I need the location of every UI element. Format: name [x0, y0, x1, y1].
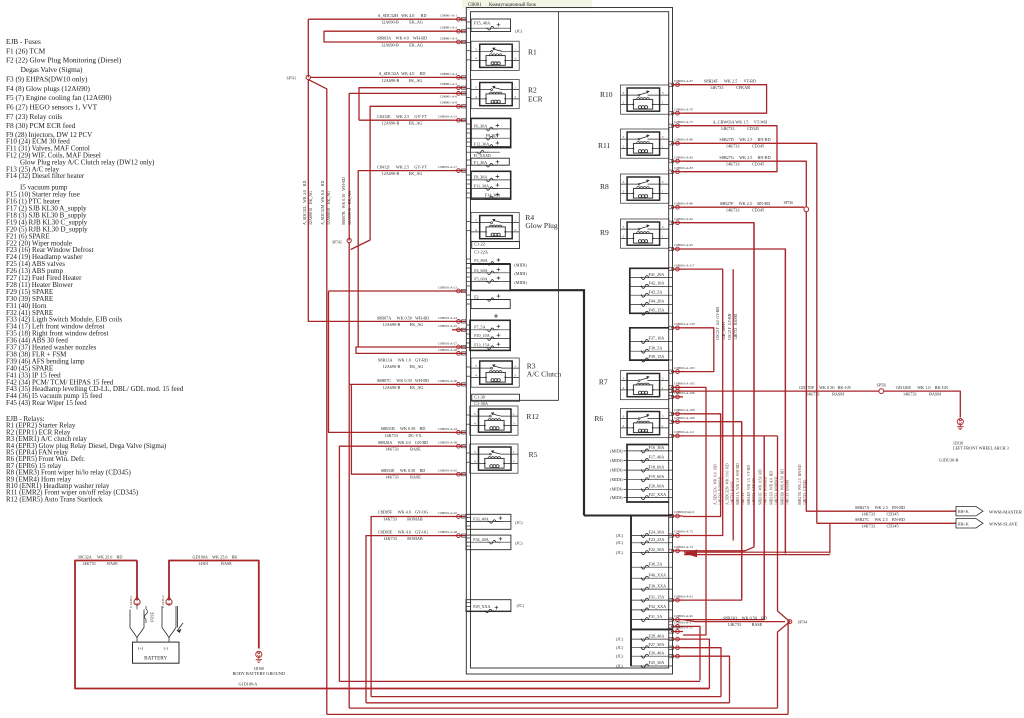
- svg-text:C0B001-A-109: C0B001-A-109: [674, 416, 695, 420]
- svg-text:F33_40A: F33_40A: [473, 516, 489, 521]
- svg-text:EJB - Fuses: EJB - Fuses: [6, 37, 41, 46]
- wire battery positive drop: [136, 561, 138, 599]
- svg-text:C0B001-A-83: C0B001-A-83: [674, 166, 693, 170]
- right edge connector pins of CB001: [669, 79, 695, 658]
- svg-text:(JC): (JC): [616, 637, 624, 642]
- svg-text:12A690-B EK_AG: 12A690-B EK_AG: [382, 171, 423, 176]
- svg-text:R7: R7: [599, 378, 608, 387]
- svg-text:C1A36-1: C1A36-1: [129, 595, 133, 608]
- svg-text:F15_40A: F15_40A: [474, 21, 491, 26]
- svg-text:14K733 BASE: 14K733 BASE: [385, 475, 421, 480]
- svg-text:F13_15A: F13_15A: [474, 342, 490, 347]
- ground body battery: [256, 651, 262, 662]
- wire label S8B07A: [377, 316, 429, 328]
- wire label S8B31B: [381, 426, 426, 438]
- svg-text:(JC): (JC): [616, 645, 624, 650]
- svg-text:12A690-B EK_AG: 12A690-B EK_AG: [383, 364, 424, 369]
- svg-text:C0B001-A-117: C0B001-A-117: [674, 263, 695, 267]
- relay R5: [470, 444, 518, 473]
- wire S8B31B: [329, 291, 453, 432]
- svg-text:(JC): (JC): [515, 541, 523, 546]
- svg-text:12A690-B EK_AG: 12A690-B EK_AG: [382, 121, 423, 126]
- wire S8B33E: [351, 384, 452, 474]
- svg-text:RH+K: RH+K: [958, 509, 969, 514]
- svg-text:A_SDC32N WK 10.0 RD: A_SDC32N WK 10.0 RD: [726, 463, 730, 505]
- splice SP741: [287, 75, 311, 80]
- svg-text:(JC): (JC): [616, 654, 624, 659]
- svg-text:F25_30A: F25_30A: [649, 660, 665, 665]
- junction box CB001 title: [462, 0, 592, 9]
- wire branch to pin A-92 lower: [683, 436, 764, 620]
- wire stub A-11 down: [683, 648, 721, 697]
- wire battery negative to ground: [169, 561, 259, 649]
- svg-text:C0B001-A-67: C0B001-A-67: [674, 79, 693, 83]
- svg-text:30C32A WK 25.0 RD: 30C32A WK 25.0 RD: [78, 554, 123, 559]
- svg-text:R5: R5: [529, 450, 538, 459]
- wire battery positive feed: [75, 561, 709, 689]
- svg-text:S8B27C WK 2.5 BN-RD: S8B27C WK 2.5 BN-RD: [855, 517, 905, 522]
- svg-text:C0B001-A-86: C0B001-A-86: [674, 201, 693, 205]
- svg-text:C8412I WK 2.5 GY-VT: C8412I WK 2.5 GY-VT: [377, 164, 427, 169]
- svg-text:F40_XXA: F40_XXA: [649, 572, 667, 577]
- svg-text:S8B24F WK 2.5 VT-RD: S8B24F WK 2.5 VT-RD: [704, 79, 756, 84]
- svg-text:C8D05F WK 4.0 GY-OG: C8D05F WK 4.0 GY-OG: [378, 510, 428, 515]
- svg-text:14K733 CFKAB: 14K733 CFKAB: [710, 85, 750, 90]
- svg-text:S8B28A WK 4.0 GN-RD: S8B28A WK 4.0 GN-RD: [378, 440, 428, 445]
- wire C8D05F: [371, 517, 452, 697]
- svg-text:12A690-B EK_AG: 12A690-B EK_AG: [381, 42, 423, 47]
- svg-text:R12: R12: [526, 412, 539, 421]
- svg-text:F10_10A: F10_10A: [474, 333, 490, 338]
- svg-text:C0C21F GY-BN: C0C21F GY-BN: [728, 313, 732, 340]
- fuse F15 40A box: [471, 19, 511, 32]
- svg-text:F24_30A: F24_30A: [649, 530, 665, 535]
- svg-text:C0B001-A-92: C0B001-A-92: [674, 614, 693, 618]
- svg-text:C0B001-A-45: C0B001-A-45: [438, 511, 457, 515]
- fuse group F37-F39 box: [630, 328, 673, 362]
- svg-text:F6 (27) HEGO sensors 1, VVT: F6 (27) HEGO sensors 1, VVT: [6, 102, 98, 111]
- svg-text:(MIDI): (MIDI): [514, 271, 527, 276]
- svg-text:14301 BASE: 14301 BASE: [198, 561, 232, 566]
- relay R9: [621, 219, 669, 248]
- svg-text:(MIDI): (MIDI): [610, 487, 623, 492]
- connector WWM-SLAVE: [956, 519, 1018, 528]
- wire label A_CBW03A: [713, 120, 768, 132]
- labels JC for F28 F27 F26 F25: [616, 637, 624, 669]
- wire label S8B27F: [720, 201, 771, 213]
- ground left front wheel arch: [957, 419, 963, 430]
- svg-text:F41_20A: F41_20A: [649, 272, 665, 277]
- svg-text:F14 (32) Diesel filter heater: F14 (32) Diesel filter heater: [6, 172, 85, 180]
- component lead lines left column: [466, 22, 471, 611]
- vertical wire labels right of A-130: [716, 307, 738, 340]
- wire GD170P SP556 GD120E: [683, 390, 879, 392]
- svg-text:F29_XXA: F29_XXA: [473, 604, 490, 609]
- battery negative eyelet: [161, 595, 172, 608]
- battery positive eyelet: [129, 595, 140, 608]
- wire A_SDC32H feed: [308, 18, 452, 20]
- relay R11: [621, 129, 669, 158]
- svg-text:12A690-B EK_AG: 12A690-B EK_AG: [381, 20, 423, 25]
- wire C8412E: [359, 119, 452, 121]
- svg-text:F2: F2: [474, 294, 478, 299]
- label R3 A/C Clutch: [527, 361, 562, 378]
- svg-text:SP556: SP556: [877, 384, 887, 388]
- fuse F1 box: [471, 150, 509, 167]
- svg-text:C0B001(5A)-6: C0B001(5A)-6: [674, 510, 694, 514]
- svg-text:F44_20A: F44_20A: [649, 299, 665, 304]
- wire label A_SDC32H: [378, 13, 427, 25]
- svg-text:C0B001-A-30: C0B001-A-30: [438, 379, 457, 383]
- wire stub A-95 down: [683, 249, 785, 553]
- wire S8B27D: [683, 143, 817, 523]
- splice SP726: [784, 201, 809, 212]
- svg-text:F7_5A: F7_5A: [474, 324, 485, 329]
- wire S8B07C: [349, 383, 452, 385]
- wire stub A-108 down bundle: [683, 414, 721, 517]
- svg-text:ECR: ECR: [528, 95, 543, 104]
- battery positive terminal funnel: [130, 610, 144, 642]
- svg-text:F16_30A: F16_30A: [649, 445, 665, 450]
- svg-text:14K733 BASE: 14K733 BASE: [385, 447, 421, 452]
- svg-text:R12 (EMR5) Auto Trans Startloc: R12 (EMR5) Auto Trans Startlock: [6, 495, 103, 503]
- svg-text:F23_25A: F23_25A: [649, 537, 665, 542]
- wire label S8B28A: [378, 440, 428, 452]
- svg-text:C1-22: C1-22: [474, 242, 485, 247]
- svg-text:14K733 ROMAB: 14K733 ROMAB: [383, 516, 423, 521]
- junction box internal divider: [471, 12, 558, 401]
- wire C8412I: [358, 171, 452, 347]
- svg-text:C0B001-A-80: C0B001-A-80: [674, 138, 693, 142]
- MIDI bus bar heavy line: [511, 290, 585, 515]
- svg-text:S8B27F WK 2.5 BN-RD: S8B27F WK 2.5 BN-RD: [720, 201, 771, 206]
- label R2 ECR: [528, 86, 543, 104]
- junction box CB001 inner border: [471, 12, 669, 668]
- svg-text:14K733 BASE: 14K733 BASE: [82, 561, 118, 566]
- svg-text:C1-22A: C1-22A: [474, 249, 489, 254]
- relay R4 Glow Plug: [471, 213, 519, 242]
- fuse group F7 F10 F13 box: [470, 314, 510, 350]
- svg-text:C0B001-A-34: C0B001-A-34: [438, 427, 457, 431]
- svg-text:C0B001-A-72: C0B001-A-72: [674, 530, 693, 534]
- wire S8B13A loop: [356, 347, 452, 353]
- svg-text:C0B001-A-91: C0B001-A-91: [674, 594, 693, 598]
- svg-text:R6: R6: [594, 414, 603, 423]
- svg-text:R8: R8: [600, 182, 609, 191]
- wire label GD120E: [896, 385, 948, 397]
- svg-text:(JC): (JC): [616, 540, 624, 545]
- svg-text:C1-30A: C1-30A: [474, 401, 489, 406]
- svg-text:F11_30A: F11_30A: [474, 183, 489, 188]
- wire battery feed vertical to SP741: [307, 19, 309, 77]
- splice SP743: [332, 238, 351, 244]
- svg-text:(JC): (JC): [616, 533, 624, 538]
- wire bottom U 2: [371, 696, 721, 698]
- svg-text:S8B03A WK 4.0 WH-RD: S8B03A WK 4.0 WH-RD: [377, 36, 427, 41]
- wire SP741 branch down: [308, 80, 327, 715]
- svg-text:A_SDC32M WK 6.0 RD: A_SDC32M WK 6.0 RD: [320, 180, 325, 225]
- svg-text:12A690-B EK_AG: 12A690-B EK_AG: [347, 191, 352, 225]
- svg-text:(MIDI): (MIDI): [610, 458, 623, 463]
- svg-text:14K733 CD345: 14K733 CD345: [721, 126, 759, 131]
- svg-text:F5_60A: F5_60A: [474, 277, 487, 282]
- svg-text:C8412E WK 2.5 GY-VT: C8412E WK 2.5 GY-VT: [377, 114, 427, 119]
- battery negative terminal funnel: [162, 606, 183, 642]
- svg-text:F18_60A: F18_60A: [649, 464, 665, 469]
- wire stub A-117 down: [683, 269, 723, 535]
- svg-text:12A690-B EK_AG: 12A690-B EK_AG: [383, 322, 424, 327]
- svg-text:FUSE: FUSE: [150, 612, 155, 622]
- fuse F33 40A box: [466, 514, 511, 529]
- svg-text:GD170P WK 0.50 BK-GN: GD170P WK 0.50 BK-GN: [799, 385, 851, 390]
- wire stub A-12 horizontal: [351, 106, 452, 249]
- wire label S8B27G: [719, 155, 770, 167]
- svg-text:(JC): (JC): [515, 29, 523, 34]
- svg-text:F28_40A: F28_40A: [649, 633, 665, 638]
- fuse group F16-F21 MIDI box: [624, 445, 673, 503]
- svg-text:(MIDI): (MIDI): [514, 280, 527, 285]
- svg-text:(MIDI): (MIDI): [610, 468, 623, 473]
- svg-text:S8B27G WK 2.5 BN-RD: S8B27G WK 2.5 BN-RD: [719, 155, 770, 160]
- svg-text:GD100A WK 25.0 BK: GD100A WK 25.0 BK: [193, 554, 238, 559]
- svg-text:C0B001-A-28: C0B001-A-28: [438, 348, 457, 352]
- svg-text:(MIDI): (MIDI): [610, 477, 623, 482]
- svg-text:12A690-B EK_AG: 12A690-B EK_AG: [382, 78, 423, 83]
- svg-text:14K733 BASM: 14K733 BASM: [786, 479, 790, 505]
- svg-text:(-): (-): [164, 646, 169, 651]
- label R4 Glow Plug: [525, 213, 558, 230]
- svg-text:14K733 ROMAB: 14K733 ROMAB: [719, 476, 723, 505]
- wire label S8B07C: [377, 378, 429, 390]
- svg-text:12A690-B EK_AG: 12A690-B EK_AG: [326, 191, 331, 225]
- fuse group F41-F45 box: [630, 268, 673, 315]
- svg-text:(MIDI): (MIDI): [610, 495, 623, 500]
- svg-text:14K733 CD345: 14K733 CD345: [726, 208, 764, 213]
- svg-text:BATTERY: BATTERY: [144, 655, 167, 661]
- connector WWM-MASTER: [956, 507, 1023, 516]
- svg-text:F1 (26) TCM: F1 (26) TCM: [6, 46, 46, 55]
- svg-text:F19_60A: F19_60A: [649, 474, 665, 479]
- relay R12: [470, 406, 518, 435]
- svg-text:C0B001-A-92: C0B001-A-92: [674, 217, 693, 221]
- wire S8B03A loop: [324, 31, 452, 42]
- svg-text:F17_40A: F17_40A: [649, 455, 665, 460]
- svg-text:F32_XXA: F32_XXA: [649, 604, 667, 609]
- svg-text:C0C21F 4.0 GY-BN: C0C21F 4.0 GY-BN: [716, 307, 720, 340]
- wire bottom U 4: [349, 707, 777, 709]
- svg-text:C0B001-A-4: C0B001-A-4: [440, 72, 458, 76]
- wire S8B28A: [339, 446, 452, 681]
- svg-text:F31_5A: F31_5A: [649, 614, 663, 619]
- wire stub A-105 down: [683, 387, 706, 635]
- wire stub bottom right 2 down: [683, 639, 709, 688]
- svg-text:Degas Valve (Sigma): Degas Valve (Sigma): [6, 65, 83, 74]
- svg-text:C0B001-A-17: C0B001-A-17: [438, 165, 457, 169]
- svg-text:S8B31E WK 0.50 RD: S8B31E WK 0.50 RD: [759, 469, 763, 505]
- ground label body battery ground: [232, 667, 285, 687]
- relay R10: [621, 85, 669, 114]
- connector C1-30 box: [472, 394, 520, 401]
- fuse F29 XXA box: [466, 600, 511, 613]
- wire label S8B33Q: [723, 615, 767, 627]
- svg-text:F21_XXA: F21_XXA: [649, 492, 667, 497]
- wire bottom U 1: [339, 680, 700, 682]
- vertical wire labels right bundle: [714, 463, 808, 505]
- svg-text:C1-30: C1-30: [474, 395, 485, 400]
- svg-text:C0B001-A-2: C0B001-A-2: [440, 26, 458, 30]
- wire A_CBW03A loop: [683, 126, 777, 172]
- svg-text:C0B001-A-75: C0B001-A-75: [674, 120, 693, 124]
- wire into pin A-8: [349, 93, 452, 240]
- svg-text:14K733 CD345: 14K733 CD345: [726, 144, 764, 149]
- legend EJB relays list: [6, 415, 167, 503]
- svg-text:C0B001-A-103: C0B001-A-103: [674, 366, 695, 370]
- svg-text:S8B33E WK 0.50 RD: S8B33E WK 0.50 RD: [381, 468, 426, 473]
- legend EJB fuses list: [6, 37, 184, 407]
- svg-text:C0B001-A-27: C0B001-A-27: [438, 341, 457, 345]
- svg-text:S8B27D WK 2.5 BN-RD: S8B27D WK 2.5 BN-RD: [719, 137, 770, 142]
- svg-text:F36_5A: F36_5A: [649, 561, 663, 566]
- svg-text:F34_40A: F34_40A: [473, 537, 489, 542]
- svg-text:C0B001-A-21: C0B001-A-21: [438, 285, 457, 289]
- svg-text:F27_30A: F27_30A: [649, 642, 665, 647]
- wire label S8B13A: [378, 357, 428, 369]
- svg-text:S8B31B WK 0.50 RD: S8B31B WK 0.50 RD: [381, 426, 426, 431]
- heavy separator and rail lower right fuse area: [584, 516, 672, 667]
- svg-text:S8B13A WK 1.0 GY-RD: S8B13A WK 1.0 GY-RD: [378, 357, 428, 362]
- svg-text:F31_15A: F31_15A: [649, 594, 665, 599]
- relay R2 ECR: [471, 80, 519, 109]
- svg-text:14K733 BASE: 14K733 BASE: [728, 622, 763, 627]
- wire S8B07A: [308, 80, 452, 322]
- wire SP726 down to WWM master: [806, 212, 956, 512]
- wire bottom U 3: [366, 702, 730, 704]
- svg-text:F12_30A: F12_30A: [474, 141, 490, 146]
- svg-text:C0B001-A-108: C0B001-A-108: [674, 408, 695, 412]
- svg-text:14K733 DC-VX: 14K733 DC-VX: [384, 433, 421, 438]
- svg-text:F4 (8) Glow plugs (12A690): F4 (8) Glow plugs (12A690): [6, 84, 90, 93]
- svg-text:C0B001-A-70: C0B001-A-70: [674, 107, 693, 111]
- svg-text:R11: R11: [598, 141, 610, 150]
- svg-text:S8B34D WK 1.5 VT-RD: S8B34D WK 1.5 VT-RD: [747, 465, 751, 505]
- svg-text:F3_80A: F3_80A: [474, 258, 487, 263]
- svg-text:F7 (23) Relay coils: F7 (23) Relay coils: [6, 112, 62, 121]
- svg-text:14K733 CD345: 14K733 CD345: [726, 162, 764, 167]
- svg-text:F8_30A: F8_30A: [474, 175, 487, 180]
- svg-text:12B_100-H: 12B_100-H: [722, 322, 726, 340]
- wire label S8B33E: [381, 468, 426, 480]
- svg-text:F6_30A: F6_30A: [474, 123, 487, 128]
- svg-text:F1_30A: F1_30A: [474, 160, 487, 165]
- wire label C8D05E: [378, 529, 428, 541]
- svg-text:C0B001-A-8: C0B001-A-8: [440, 101, 458, 105]
- right bundle verticals upper: [721, 223, 786, 617]
- svg-text:F42_10A: F42_10A: [649, 281, 665, 286]
- svg-text:G1DU30-B: G1DU30-B: [939, 457, 959, 462]
- svg-text:S8B33B WK 0.50 RD: S8B33B WK 0.50 RD: [781, 469, 785, 505]
- wire S8B33Q to SP744: [683, 620, 785, 622]
- wire S8B27F to SP726: [683, 206, 804, 208]
- svg-text:SP726: SP726: [784, 201, 794, 205]
- svg-text:SP744: SP744: [798, 621, 808, 625]
- svg-text:R10: R10: [600, 90, 613, 99]
- svg-text:F45_15A: F45_15A: [649, 307, 665, 312]
- svg-text:S8B31A WK 1.0 WH-RD: S8B31A WK 1.0 WH-RD: [736, 463, 740, 505]
- svg-text:F5 (7) Engine cooling fan (12A: F5 (7) Engine cooling fan (12A690): [6, 93, 112, 102]
- svg-text:C0B001-A-95: C0B001-A-95: [674, 243, 693, 247]
- wire down from S8B27D to WWM slave: [817, 522, 956, 524]
- labels MIDI for F3 F4 F5: [514, 263, 527, 286]
- svg-text:RH+K: RH+K: [958, 521, 969, 526]
- wire bottom U 5: [327, 713, 788, 715]
- svg-text:F30_XXA: F30_XXA: [649, 583, 667, 588]
- battery fuse symbol: [137, 605, 148, 623]
- svg-text:14K733 CD345: 14K733 CD345: [803, 480, 807, 505]
- svg-text:C0B001-A-25: C0B001-A-25: [438, 324, 457, 328]
- splice SP744 junction: [778, 436, 792, 715]
- svg-text:GD120E WK 1.0 BK-GN: GD120E WK 1.0 BK-GN: [896, 385, 948, 390]
- svg-text:C0B001-A-111: C0B001-A-111: [674, 430, 695, 434]
- svg-text:A_SDC32A WK 4.0 RD: A_SDC32A WK 4.0 RD: [379, 71, 426, 76]
- svg-text:R1: R1: [528, 48, 537, 57]
- relay R7: [621, 371, 669, 400]
- svg-text:C0B001-A-5: C0B001-A-5: [440, 82, 458, 86]
- svg-text:(MIDI): (MIDI): [514, 263, 527, 268]
- svg-text:14K733 CD345: 14K733 CD345: [861, 524, 898, 529]
- wire S8B27G to SP726: [683, 161, 806, 207]
- labels MIDI for F16-F21: [610, 448, 623, 500]
- svg-text:C0B001-A-105: C0B001-A-105: [674, 382, 695, 386]
- svg-text:F45 (43) Rear Wiper 15 feed: F45 (43) Rear Wiper 15 feed: [6, 399, 87, 407]
- wire S8B24F loop: [683, 85, 767, 114]
- fuse group F8 F11 F14 box: [471, 171, 511, 199]
- svg-text:C0B001-A-42: C0B001-A-42: [438, 469, 457, 473]
- svg-text:A_CBW03A WK 1.5 VT-WH: A_CBW03A WK 1.5 VT-WH: [713, 120, 768, 125]
- svg-text:S8B27B WK 2.5 BN-RD: S8B27B WK 2.5 BN-RD: [798, 464, 802, 505]
- fuse rows F28 F27 F26 F25: [631, 633, 672, 668]
- svg-text:C0B001-A-6: C0B001-A-6: [440, 94, 458, 98]
- wire stub A-92 down: [683, 223, 754, 551]
- svg-text:LEFT FRONT WHEEL ARCH 3: LEFT FRONT WHEEL ARCH 3: [953, 446, 1009, 451]
- svg-text:14K733 BASM: 14K733 BASM: [806, 392, 844, 397]
- vertical wire labels left bundle: [302, 177, 352, 225]
- fuse rows F24 F23 F22: [631, 530, 672, 555]
- svg-text:C0B001-A-38: C0B001-A-38: [438, 441, 457, 445]
- svg-text:C0B001-A-130: C0B001-A-130: [674, 322, 695, 326]
- relay R3 A/C Clutch: [471, 358, 519, 387]
- wire label GD170P: [799, 385, 851, 397]
- svg-text:F2 (22) Glow Plug Monitoring (: F2 (22) Glow Plug Monitoring (Diesel): [6, 56, 122, 65]
- wire label C8412E: [377, 114, 427, 126]
- svg-text:G1D109-A: G1D109-A: [238, 682, 257, 687]
- svg-text:F43_5A: F43_5A: [649, 289, 663, 294]
- svg-text:C8D05E WK 4.0 GY-OG: C8D05E WK 4.0 GY-OG: [378, 529, 428, 534]
- svg-text:A_SDC32G WK 6.0 RD: A_SDC32G WK 6.0 RD: [714, 464, 718, 505]
- svg-text:S8B07A WK 0.50 WH-RD: S8B07A WK 0.50 WH-RD: [377, 316, 429, 321]
- svg-text:WWM-SLAVE: WWM-SLAVE: [989, 522, 1018, 527]
- relay R1: [471, 41, 519, 70]
- svg-text:C0B001-A-82: C0B001-A-82: [674, 155, 693, 159]
- fuse group F3 F4 F5 MIDI box: [466, 258, 510, 291]
- svg-text:(JC): (JC): [616, 550, 624, 555]
- wire stub A-111 down bundle: [683, 435, 778, 437]
- wire into pin A-21: [329, 290, 453, 292]
- fuse group F6 F9 F12 box: [471, 118, 511, 148]
- svg-text:F1_XXXD: F1_XXXD: [474, 154, 491, 158]
- wire label S8B27D: [719, 137, 770, 149]
- svg-text:R2: R2: [528, 86, 537, 95]
- junction box CB001 outer border: [466, 8, 672, 675]
